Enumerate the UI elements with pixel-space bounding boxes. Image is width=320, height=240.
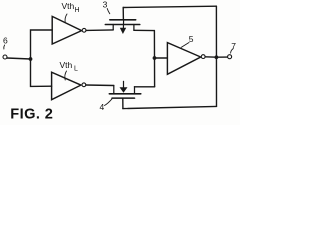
feedback wire right run bbox=[215, 6, 217, 106]
svg-text:6: 6 bbox=[3, 36, 8, 46]
leader line for label 7 bbox=[231, 49, 233, 53]
label 7 bbox=[231, 41, 236, 51]
wire output node to terminal 7 bbox=[216, 56, 228, 58]
buffer U1 output bubble bbox=[82, 28, 86, 32]
wire Q3 gate feed bbox=[122, 8, 124, 20]
wire U3 output to output node bbox=[205, 56, 216, 58]
label VthL bbox=[60, 60, 79, 73]
Q3 source tap bbox=[112, 25, 114, 30]
feedback wire top run bbox=[123, 6, 216, 7]
Q4 drain tap bbox=[134, 87, 136, 94]
Q4 source tap bbox=[113, 86, 115, 94]
transistor Q4 bbox=[109, 81, 141, 98]
svg-text:H: H bbox=[75, 7, 80, 14]
wire U2 output to Q4 source bbox=[86, 84, 114, 87]
svg-text:L: L bbox=[74, 66, 78, 73]
leader line for label VthH bbox=[65, 14, 67, 23]
wire Q4 drain to node B bbox=[135, 86, 155, 88]
wire Q3 drain to node B bbox=[134, 29, 155, 31]
leader line for label 6 bbox=[3, 45, 6, 49]
Q3 drain tap bbox=[133, 25, 135, 31]
feedback wire bottom run bbox=[123, 106, 217, 108]
svg-text:FIG. 2: FIG. 2 bbox=[10, 107, 53, 123]
junction node B bbox=[153, 56, 157, 60]
Q3 gate bar bbox=[110, 19, 136, 21]
Q3 channel bar bbox=[105, 24, 140, 26]
output terminal 7 bbox=[228, 55, 232, 59]
leader line for label 5 bbox=[181, 43, 189, 48]
label 4 bbox=[100, 102, 105, 112]
svg-text:3: 3 bbox=[103, 0, 108, 10]
label VthH bbox=[62, 1, 80, 14]
leader line for label VthL bbox=[65, 71, 67, 80]
junction output node bbox=[215, 55, 219, 59]
leader line for label 3 bbox=[107, 9, 110, 14]
junction node A bbox=[29, 57, 33, 61]
wire node B to inverter U3 input bbox=[155, 57, 168, 59]
Q4 gate bar bbox=[112, 97, 135, 99]
inverter U3 output bubble bbox=[201, 55, 205, 59]
svg-text:5: 5 bbox=[189, 34, 194, 44]
wire terminal 6 to input junction bbox=[7, 58, 31, 59]
label 5 bbox=[189, 34, 194, 44]
wire junction A up to buffer VthH input bbox=[31, 30, 53, 59]
svg-text:4: 4 bbox=[100, 102, 105, 112]
node B vertical wire bbox=[153, 31, 155, 87]
label 3 bbox=[103, 0, 108, 10]
buffer U2 VthL triangle bbox=[52, 72, 81, 100]
leader line for label 4 bbox=[105, 99, 113, 106]
buffer U2 output bubble bbox=[82, 83, 86, 87]
transistor Q3 bbox=[105, 20, 140, 34]
svg-text:Vth: Vth bbox=[60, 60, 73, 70]
Q4 substrate arrow bbox=[123, 81, 125, 87]
buffer U1 VthH triangle bbox=[52, 16, 81, 44]
inverter U3 triangle bbox=[167, 43, 200, 75]
Q4 channel bar bbox=[109, 93, 141, 95]
wire Q4 gate feed bbox=[122, 98, 124, 108]
wire junction A down to buffer VthL input bbox=[31, 59, 52, 86]
label 6 bbox=[3, 36, 8, 46]
wire U1 output to Q3 source bbox=[86, 29, 113, 32]
svg-text:Vth: Vth bbox=[62, 1, 75, 11]
figure caption FIG. 2 bbox=[10, 107, 53, 123]
input terminal 6 bbox=[3, 55, 7, 59]
Q3 substrate arrow bbox=[122, 20, 124, 28]
